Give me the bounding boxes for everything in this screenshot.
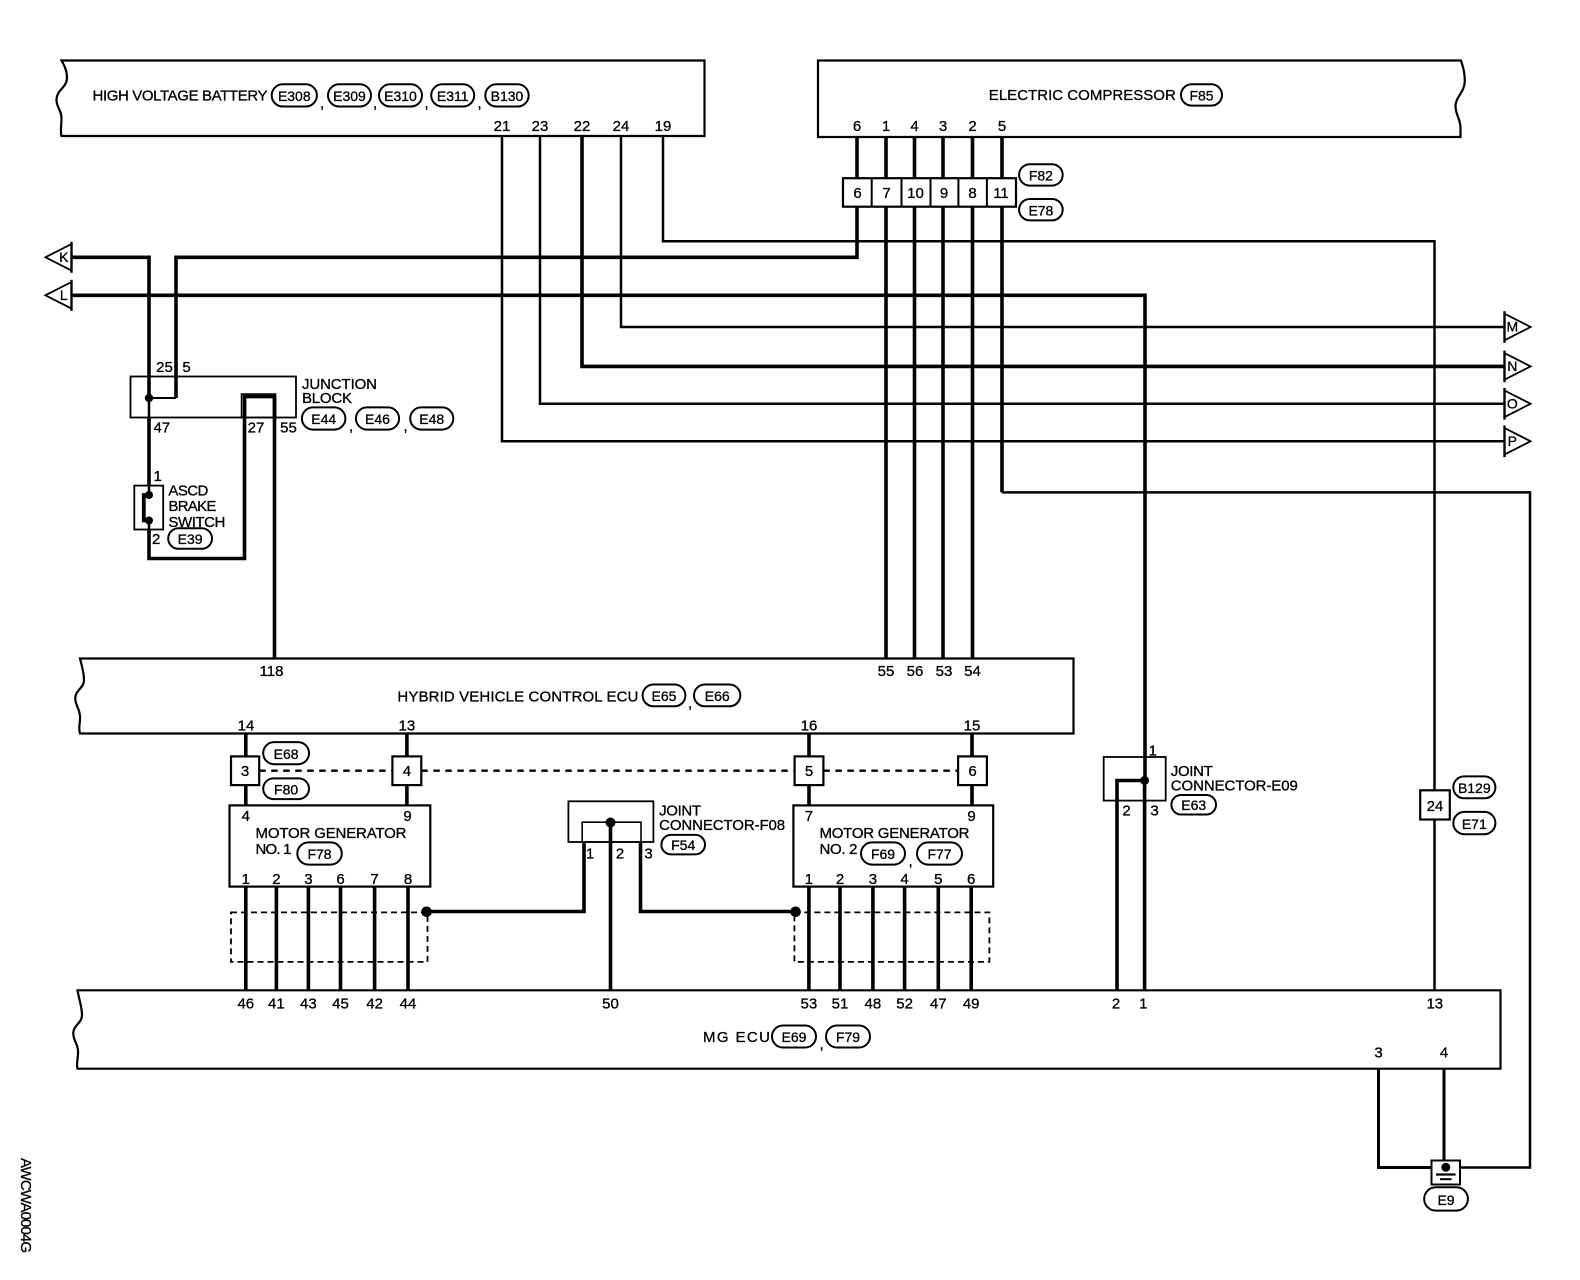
arrow M — [1505, 311, 1531, 343]
svg-text:2: 2 — [1112, 996, 1120, 1013]
HV ECU top pin labels 118 55 56 53 54 — [260, 663, 981, 680]
hybrid vehicle control ECU box — [75, 659, 1073, 734]
in-line connector 24 (B129/E71) — [1420, 790, 1450, 819]
svg-text:6: 6 — [336, 871, 344, 888]
wire: joint connector F08 pin 1 to MG1 shield — [427, 842, 585, 912]
svg-text:6: 6 — [968, 763, 976, 780]
svg-text:5: 5 — [805, 763, 813, 780]
svg-text:9: 9 — [967, 808, 975, 825]
svg-text:9: 9 — [403, 808, 411, 825]
junction block internal notch — [242, 394, 276, 418]
connector oval E63 — [1171, 795, 1216, 815]
svg-text:44: 44 — [400, 996, 417, 1013]
connector oval E39 — [168, 528, 212, 549]
connector oval E46 — [356, 407, 399, 429]
connector oval E66 — [694, 685, 740, 707]
svg-text:BLOCK: BLOCK — [302, 390, 352, 407]
svg-text:13: 13 — [1426, 996, 1443, 1013]
F08 junction dot — [606, 818, 616, 828]
svg-text:43: 43 — [300, 996, 317, 1013]
svg-text:1: 1 — [586, 846, 594, 863]
svg-text:23: 23 — [532, 118, 549, 135]
svg-text:7: 7 — [882, 185, 890, 202]
svg-text:21: 21 — [494, 118, 511, 135]
wire: MG ECU pin 3 to ground E9 — [1379, 1069, 1432, 1168]
MG2 shielded cable dashed box — [794, 912, 989, 962]
svg-text:P: P — [1508, 433, 1517, 449]
svg-text:47: 47 — [153, 420, 170, 437]
connector oval E9 — [1424, 1187, 1468, 1210]
svg-text:3: 3 — [869, 871, 877, 888]
connector oval E78 — [1019, 199, 1063, 220]
wire: compressor pin 6 via E78 cell 6 to junction block pin 5 — [176, 137, 857, 398]
svg-text:CONNECTOR-F08: CONNECTOR-F08 — [659, 817, 785, 834]
wires: MG2 pins 1,2,3,4,5,6 to MG ECU pins 53,51,48,52,47,49 — [809, 887, 971, 991]
wire: MG ECU pin 4 to ground E9 — [1443, 1069, 1446, 1166]
wire: joint connector F08 pin 3 to MG2 shield — [641, 842, 796, 912]
svg-text:NO. 2: NO. 2 — [820, 841, 858, 858]
svg-text:48: 48 — [865, 996, 882, 1013]
svg-text:E68: E68 — [274, 746, 299, 762]
svg-text:HYBRID VEHICLE CONTROL ECU: HYBRID VEHICLE CONTROL ECU — [397, 689, 638, 706]
E09 junction dot — [1140, 776, 1149, 785]
svg-text:3: 3 — [304, 871, 312, 888]
svg-text:,: , — [320, 95, 324, 112]
svg-text:11: 11 — [993, 185, 1009, 202]
wire: HV ECU pin 16 via connector 5 to MG2 pin 7 — [807, 734, 811, 806]
svg-text:F82: F82 — [1029, 168, 1053, 184]
connector oval E68 — [263, 742, 309, 764]
wire: joint connector E09 pin 2 to MG ECU pin 2 — [1117, 781, 1145, 991]
svg-text:2: 2 — [152, 531, 160, 548]
svg-text:42: 42 — [366, 996, 383, 1013]
svg-text:4: 4 — [910, 118, 918, 135]
svg-text:3: 3 — [241, 763, 249, 780]
svg-text:7: 7 — [805, 808, 813, 825]
svg-text:HIGH VOLTAGE BATTERY: HIGH VOLTAGE BATTERY — [93, 88, 268, 105]
arrow N — [1505, 351, 1531, 383]
svg-text:3: 3 — [644, 846, 652, 863]
wire: battery pin 21 to arrow P — [502, 136, 1505, 441]
wire: joint connector E09 pin 3 to MG ECU pin 1 — [1143, 781, 1147, 991]
svg-text:,: , — [688, 695, 692, 712]
svg-text:24: 24 — [1427, 798, 1444, 815]
svg-text:E9: E9 — [1437, 1192, 1454, 1208]
MG ECU top pin labels 46 41 43 45 42 44 — [237, 996, 416, 1013]
wire: compressor pin 2 via E78 cell 8 to HV ECU pin 54 — [971, 137, 975, 659]
svg-text:1: 1 — [1149, 743, 1157, 760]
svg-text:6: 6 — [853, 185, 861, 202]
wire: brake switch pin 2 via junction 27/55 to HV ECU pin 118 — [148, 521, 151, 530]
wire: HV ECU pin 15 via connector 6 to MG2 pin 9 — [970, 734, 974, 806]
MG1 shield junction dot — [421, 907, 432, 918]
svg-text:16: 16 — [801, 718, 818, 735]
wire: compressor pin 3 via E78 cell 9 to HV ECU pin 53 — [941, 137, 945, 659]
svg-text:B130: B130 — [491, 88, 524, 104]
svg-text:L: L — [60, 287, 68, 303]
wire: compressor pin 1 via E78 cell 7 to HV ECU pin 55 — [884, 137, 888, 659]
svg-text:K: K — [59, 249, 69, 265]
svg-text:2: 2 — [272, 871, 280, 888]
svg-text:3: 3 — [1150, 803, 1158, 820]
svg-text:,: , — [820, 1036, 824, 1053]
joint connector F08 outer box — [568, 801, 653, 842]
arrow K — [45, 242, 71, 273]
ground E9 symbol — [1432, 1161, 1461, 1185]
junction block box — [131, 377, 297, 418]
junction dot pin 25 — [145, 394, 153, 402]
svg-text:F77: F77 — [927, 846, 951, 862]
wire: battery pin 19 via connector 24 to MG ECU pin 13 — [663, 136, 1435, 990]
MG ECU top pin labels 2 1 13 — [1112, 996, 1443, 1013]
svg-text:B129: B129 — [1458, 780, 1491, 796]
svg-text:E46: E46 — [365, 411, 390, 427]
in-line connector square 3 — [231, 756, 259, 785]
svg-text:3: 3 — [1374, 1045, 1382, 1062]
connector oval F85 — [1181, 84, 1222, 105]
junction block pin labels 25 5 47 27 55 — [153, 359, 296, 437]
svg-text:54: 54 — [964, 663, 981, 680]
MG1 shielded cable dashed box — [231, 912, 428, 962]
svg-text:7: 7 — [370, 871, 378, 888]
svg-text:118: 118 — [260, 663, 284, 680]
brake switch contact bracket — [144, 495, 149, 521]
joint connector E09 box — [1104, 757, 1166, 801]
connector oval B130 — [485, 84, 528, 106]
wire: K arrow to junction block pin 25 — [72, 257, 150, 398]
svg-text:E69: E69 — [782, 1029, 807, 1045]
svg-text:4: 4 — [403, 763, 411, 780]
junction block wire overlay through notch — [245, 397, 275, 418]
svg-text:O: O — [1507, 395, 1518, 411]
svg-text:52: 52 — [896, 996, 913, 1013]
svg-text:46: 46 — [237, 996, 254, 1013]
MG ECU top pin labels 53 51 48 52 47 49 — [801, 996, 980, 1013]
connector oval E311 — [431, 84, 474, 106]
svg-text:,: , — [909, 853, 913, 870]
svg-text:N: N — [1507, 358, 1517, 374]
svg-text:1: 1 — [242, 871, 250, 888]
brake switch contact dots — [145, 491, 153, 499]
svg-text:,: , — [404, 418, 408, 435]
wire: L arrow to joint connector E09 pin 1 — [72, 295, 1146, 780]
svg-text:49: 49 — [963, 996, 980, 1013]
connector oval E71 — [1453, 812, 1495, 834]
svg-text:E78: E78 — [1028, 202, 1053, 218]
svg-text:27: 27 — [248, 420, 265, 437]
connector oval F79 — [826, 1026, 870, 1048]
connector oval E44 — [302, 407, 346, 429]
wire: cell 11 run to ground E9 — [1002, 492, 1530, 1167]
svg-text:56: 56 — [907, 663, 924, 680]
F08 pin labels 1 2 3 — [586, 846, 653, 863]
svg-text:MOTOR GENERATOR: MOTOR GENERATOR — [820, 825, 970, 842]
in-line connector square 6 — [958, 756, 987, 785]
joint connector F08 inner box — [582, 822, 641, 842]
svg-text:E309: E309 — [333, 88, 366, 104]
svg-text:E65: E65 — [652, 688, 677, 704]
connector oval F78 — [297, 842, 342, 864]
in-line connector square 4 — [392, 756, 421, 785]
electric compressor box — [818, 61, 1465, 138]
connector oval F77 — [917, 842, 962, 864]
svg-text:1: 1 — [805, 871, 813, 888]
svg-text:5: 5 — [182, 359, 190, 376]
svg-text:22: 22 — [574, 118, 591, 135]
ASCD brake switch E39 — [134, 486, 163, 530]
connector oval F69 — [861, 842, 905, 864]
wire: junction block internal jumper 25 to 5 — [149, 397, 176, 399]
svg-text:E39: E39 — [178, 531, 203, 547]
svg-text:55: 55 — [878, 663, 895, 680]
svg-text:14: 14 — [238, 718, 255, 735]
svg-text:E311: E311 — [437, 88, 469, 104]
svg-text:51: 51 — [832, 996, 849, 1013]
MG2 bottom pin labels 1 2 3 4 5 6 — [805, 871, 976, 888]
svg-text:CONNECTOR-E09: CONNECTOR-E09 — [1171, 778, 1298, 795]
wire: compressor pin 4 via E78 cell 10 to HV ECU pin 56 — [913, 137, 917, 659]
svg-text:,: , — [478, 95, 482, 112]
motor generator no.2 box — [793, 805, 993, 886]
svg-text:2: 2 — [968, 118, 976, 135]
wire: compressor pin 5 via E78 cell 11 down — [1000, 137, 1004, 492]
svg-text:F69: F69 — [871, 846, 895, 862]
svg-text:M: M — [1506, 319, 1518, 335]
wire: HV ECU pin 14 via connector 3 to MG1 pin 4 — [244, 734, 248, 806]
svg-text:6: 6 — [853, 118, 861, 135]
svg-text:2: 2 — [1122, 803, 1130, 820]
connector oval E308 — [272, 84, 317, 106]
joint connector strip F82/E78 — [843, 178, 1016, 207]
svg-text:5: 5 — [934, 871, 942, 888]
svg-text:E48: E48 — [419, 411, 444, 427]
svg-text:2: 2 — [836, 871, 844, 888]
svg-text:E308: E308 — [278, 88, 311, 104]
svg-text:8: 8 — [404, 871, 412, 888]
connector oval E310 — [379, 84, 422, 106]
svg-text:24: 24 — [613, 118, 630, 135]
svg-text:,: , — [425, 95, 429, 112]
svg-text:9: 9 — [940, 185, 948, 202]
svg-text:53: 53 — [936, 663, 953, 680]
compressor pin numbers 6 1 4 3 2 5 — [853, 118, 1006, 135]
svg-text:4: 4 — [1440, 1045, 1448, 1062]
arrow O — [1505, 388, 1531, 420]
svg-text:5: 5 — [998, 118, 1006, 135]
wire: joint connector F08 pin 2 to MG ECU pin 50 — [609, 823, 613, 991]
HV ECU bottom pin labels 14 13 16 15 — [238, 718, 981, 735]
MG ECU box — [73, 990, 1500, 1068]
svg-text:MOTOR GENERATOR: MOTOR GENERATOR — [256, 825, 407, 842]
wire: battery pin 24 to arrow M — [621, 136, 1505, 327]
connector oval F82 — [1019, 164, 1063, 185]
svg-text:E66: E66 — [705, 688, 730, 704]
battery pin numbers 21 23 22 24 19 — [494, 118, 672, 135]
svg-text:F78: F78 — [307, 846, 331, 862]
wire: junction block pin 47 to ASCD brake switch pin 1 — [148, 398, 151, 418]
svg-text:41: 41 — [268, 996, 285, 1013]
svg-text:1: 1 — [882, 118, 890, 135]
svg-text:6: 6 — [967, 871, 975, 888]
svg-text:MG ECU: MG ECU — [703, 1029, 770, 1046]
svg-text:4: 4 — [242, 808, 250, 825]
svg-text:E71: E71 — [1462, 816, 1487, 832]
high voltage battery box — [56, 61, 704, 137]
svg-text:F79: F79 — [836, 1029, 860, 1045]
wire: battery pin 22 to arrow N — [582, 136, 1505, 366]
svg-text:15: 15 — [964, 718, 981, 735]
svg-text:45: 45 — [332, 996, 349, 1013]
svg-text:2: 2 — [616, 846, 624, 863]
svg-text:BRAKE: BRAKE — [168, 498, 216, 515]
wires: MG1 pins 1,2,3,6,7,8 to MG ECU pins 46,41,43,45,42,44 — [246, 887, 408, 991]
connector oval E309 — [328, 84, 371, 106]
svg-text:3: 3 — [939, 118, 947, 135]
connector oval E65 — [643, 685, 686, 707]
svg-text:55: 55 — [280, 420, 297, 437]
svg-text:ASCD: ASCD — [168, 483, 208, 500]
connector oval F80 — [263, 778, 309, 799]
svg-text:8: 8 — [968, 185, 976, 202]
wire: HV ECU pin 13 via connector 4 to MG1 pin 9 — [405, 734, 409, 806]
MG1 bottom pin labels 1 2 3 6 7 8 — [242, 871, 413, 888]
connector oval E69 — [772, 1026, 816, 1048]
svg-text:E63: E63 — [1181, 797, 1206, 813]
MG2 shield junction dot — [790, 907, 801, 918]
svg-text:NO. 1: NO. 1 — [256, 841, 292, 858]
svg-text:AWCWA0004G: AWCWA0004G — [17, 1158, 34, 1253]
svg-text:F54: F54 — [671, 837, 695, 853]
arrow L — [45, 280, 71, 311]
svg-text:E44: E44 — [311, 411, 336, 427]
connector oval B129 — [1453, 776, 1495, 798]
connector oval F54 — [661, 835, 705, 855]
svg-text:13: 13 — [399, 718, 416, 735]
svg-text:50: 50 — [602, 996, 619, 1013]
svg-text:F85: F85 — [1189, 88, 1213, 104]
svg-text:1: 1 — [1139, 996, 1147, 1013]
svg-text:4: 4 — [900, 871, 908, 888]
svg-text:25: 25 — [156, 359, 173, 376]
svg-text:1: 1 — [154, 468, 162, 485]
svg-text:ELECTRIC COMPRESSOR: ELECTRIC COMPRESSOR — [989, 87, 1176, 104]
connector oval E48 — [410, 407, 453, 429]
svg-text:47: 47 — [930, 996, 947, 1013]
arrow P — [1505, 426, 1531, 458]
svg-text:,: , — [349, 418, 353, 435]
motor generator no.1 box — [230, 805, 431, 886]
wire: battery pin 23 to arrow O — [540, 136, 1505, 404]
in-line connector square 5 — [795, 756, 824, 785]
svg-text:19: 19 — [655, 118, 672, 135]
svg-text:F80: F80 — [274, 782, 298, 798]
svg-text:E310: E310 — [384, 88, 417, 104]
svg-text:53: 53 — [801, 996, 818, 1013]
dashed link between in-line connectors — [259, 770, 958, 772]
svg-text:,: , — [373, 95, 377, 112]
svg-text:10: 10 — [907, 185, 924, 202]
